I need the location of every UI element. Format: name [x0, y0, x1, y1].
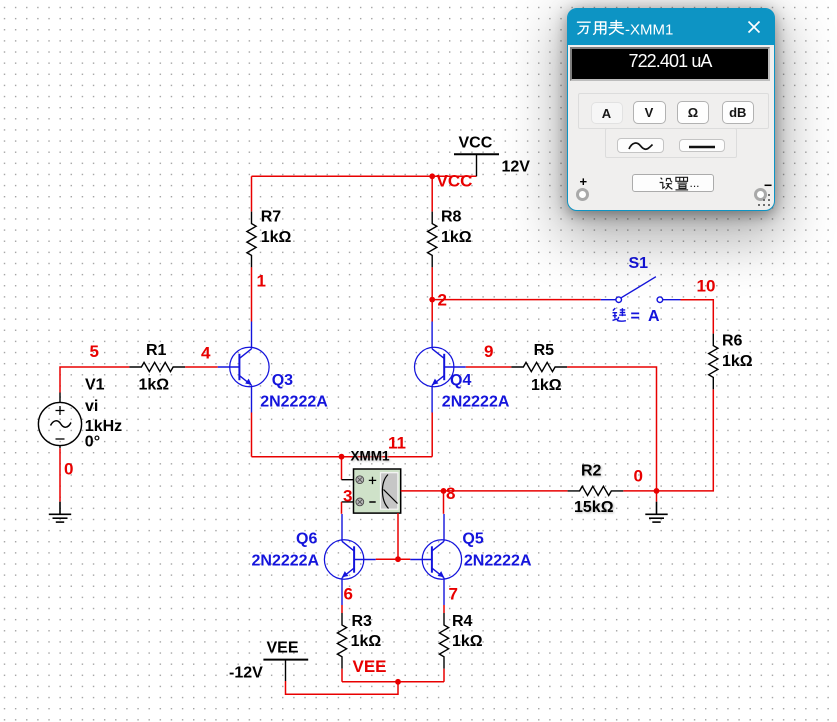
- wire S1 to R6: [681, 300, 714, 334]
- svg-text:0: 0: [64, 460, 73, 479]
- svg-text:10: 10: [697, 277, 716, 296]
- wire R8 to node 2 to Q4 collector: [431, 267, 433, 321]
- junction base node: [395, 556, 401, 562]
- resize grip: [757, 193, 773, 209]
- junction node 8: [441, 488, 447, 494]
- svg-text:Q3: Q3: [272, 372, 293, 389]
- svg-text:15kΩ: 15kΩ: [574, 499, 614, 516]
- svg-text:=: =: [631, 308, 640, 325]
- svg-text:2N2222A: 2N2222A: [252, 553, 320, 570]
- svg-text:1kΩ: 1kΩ: [531, 377, 562, 394]
- plus terminal label: [580, 174, 588, 189]
- glyph 置: [676, 177, 689, 190]
- ground (left): [49, 502, 71, 522]
- svg-text:R3: R3: [352, 613, 373, 630]
- svg-text:1kΩ: 1kΩ: [441, 229, 472, 246]
- junction node 2: [429, 297, 435, 303]
- svg-text:9: 9: [484, 342, 493, 361]
- svg-text:V1: V1: [85, 377, 105, 394]
- resistor R6: [709, 334, 718, 390]
- power symbol VEE: [263, 660, 308, 681]
- wire V1 bottom to ground, node 0: [59, 448, 61, 502]
- resistor R8: [428, 212, 437, 268]
- plus terminal: [576, 188, 589, 201]
- wire XMM1 minus to Q6 collector, node 3: [341, 502, 343, 514]
- glyph 设: [660, 178, 673, 190]
- wire R7 to Q3 collector, node 1: [251, 267, 253, 321]
- transistor Q4 (mirrored): [415, 322, 466, 413]
- window title bar: [568, 9, 774, 45]
- junction node 0: [654, 488, 660, 494]
- svg-text:1kHz: 1kHz: [85, 418, 122, 435]
- wire node 0 to ground: [656, 491, 658, 502]
- resistor R1: [129, 362, 185, 371]
- transistor Q6 (mirrored): [324, 514, 375, 605]
- resistor R4: [439, 613, 448, 669]
- svg-text:Q5: Q5: [462, 531, 483, 548]
- power symbol VCC: [454, 154, 499, 176]
- junction VEE node: [395, 679, 401, 685]
- svg-text:1kΩ: 1kΩ: [452, 633, 483, 650]
- S1 key label 键 = A: [613, 308, 626, 321]
- measurement display 722.401 uA: [570, 47, 770, 81]
- resistor R5: [511, 362, 567, 371]
- svg-text:S1: S1: [629, 255, 649, 272]
- wire R2 to node 0: [623, 490, 656, 492]
- button DC: [679, 139, 725, 153]
- voltage source V1: [38, 393, 81, 449]
- transistor Q5: [410, 514, 461, 605]
- svg-text:-XMM1: -XMM1: [625, 22, 673, 39]
- glyph 表: [609, 20, 624, 34]
- svg-text:11: 11: [388, 434, 406, 453]
- wire net VCC top rail: [252, 176, 477, 211]
- svg-text:vi: vi: [85, 398, 98, 415]
- junction VCC node: [429, 173, 435, 179]
- svg-text:8: 8: [446, 484, 455, 503]
- wire Q4 base to R5, node 9: [466, 366, 512, 368]
- svg-text:R2: R2: [581, 463, 602, 480]
- svg-text:2N2222A: 2N2222A: [260, 394, 328, 411]
- svg-text:6: 6: [344, 585, 353, 604]
- svg-text:R5: R5: [534, 342, 555, 359]
- svg-text:2N2222A: 2N2222A: [442, 394, 510, 411]
- junction XMM1 plus tap: [339, 454, 345, 460]
- svg-text:0°: 0°: [85, 434, 100, 451]
- svg-text:5: 5: [90, 342, 99, 361]
- wire R6 bottom to node 0 row: [657, 389, 714, 491]
- svg-text:1kΩ: 1kΩ: [139, 377, 170, 394]
- mode buttons panel: [578, 93, 769, 129]
- button Ohm: [677, 101, 709, 124]
- resistor R3: [337, 613, 346, 669]
- switch S1: [601, 277, 681, 303]
- svg-text:VEE: VEE: [353, 657, 387, 676]
- wire Q5 emitter to R4, node 7: [443, 605, 445, 613]
- wire net 11: Q3 emitter to Q4 emitter: [252, 413, 433, 457]
- multimeter icon XMM1: [342, 469, 401, 513]
- svg-text:R8: R8: [441, 209, 462, 226]
- waveform panel: [605, 128, 737, 158]
- svg-text:1kΩ: 1kΩ: [722, 353, 753, 370]
- wire node 8 to R2: [444, 490, 568, 492]
- transistor Q3: [218, 322, 269, 413]
- wire R3/R4 bottoms VEE rail: [286, 669, 445, 694]
- wire XMM1 bottom to bases of Q5/Q6: [397, 513, 399, 559]
- svg-text:R4: R4: [452, 613, 473, 630]
- svg-text:12V: 12V: [502, 159, 531, 176]
- ground (right): [645, 502, 667, 522]
- glyph 万: [578, 22, 591, 34]
- svg-text:1kΩ: 1kΩ: [261, 229, 292, 246]
- svg-text:VCC: VCC: [459, 135, 493, 152]
- svg-text:VEE: VEE: [267, 640, 299, 657]
- svg-text:...: ...: [690, 176, 700, 190]
- button V: [633, 101, 666, 124]
- svg-text:Q4: Q4: [450, 372, 471, 389]
- svg-text:0: 0: [634, 467, 643, 486]
- settings button 设置...: [632, 174, 714, 192]
- svg-text:XMM1: XMM1: [351, 449, 390, 464]
- wire XMM1 right to node 8: [401, 490, 444, 492]
- wire Q6 emitter to R3, node 6: [341, 605, 343, 613]
- svg-text:7: 7: [449, 585, 458, 604]
- resistor R2: [568, 486, 624, 495]
- resistor R7: [247, 212, 256, 268]
- svg-text:A: A: [648, 308, 660, 325]
- wire Q6 base to Q5 base: [376, 558, 411, 560]
- svg-text:2N2222A: 2N2222A: [464, 553, 532, 570]
- wire tap down to XMM1 plus terminal: [341, 457, 343, 480]
- wire R1 to Q3 base, node 4: [185, 366, 218, 368]
- button AC: [617, 138, 664, 154]
- svg-text:-12V: -12V: [229, 665, 263, 682]
- wire node 8 down to Q5 collector: [443, 491, 445, 514]
- wire node 2 to switch S1: [432, 299, 601, 301]
- svg-text:1kΩ: 1kΩ: [351, 633, 382, 650]
- minus terminal label: [764, 177, 772, 193]
- svg-text:R7: R7: [261, 209, 282, 226]
- glyph 用: [594, 22, 606, 34]
- svg-text:4: 4: [201, 344, 211, 363]
- minus terminal: [754, 188, 767, 201]
- wire R5 to right column down to node 0: [567, 367, 656, 491]
- svg-text:VCC: VCC: [437, 172, 473, 191]
- button dB: [722, 101, 755, 124]
- svg-text:R6: R6: [722, 333, 743, 350]
- button A: [591, 102, 623, 124]
- svg-text:3: 3: [343, 487, 352, 506]
- svg-text:Q6: Q6: [296, 531, 317, 548]
- svg-text:R1: R1: [146, 342, 167, 359]
- wire V1 top to node 5 to R1: [60, 367, 129, 393]
- svg-text:1: 1: [257, 272, 266, 291]
- instrument panel window 万用表-XMM1: [567, 8, 775, 211]
